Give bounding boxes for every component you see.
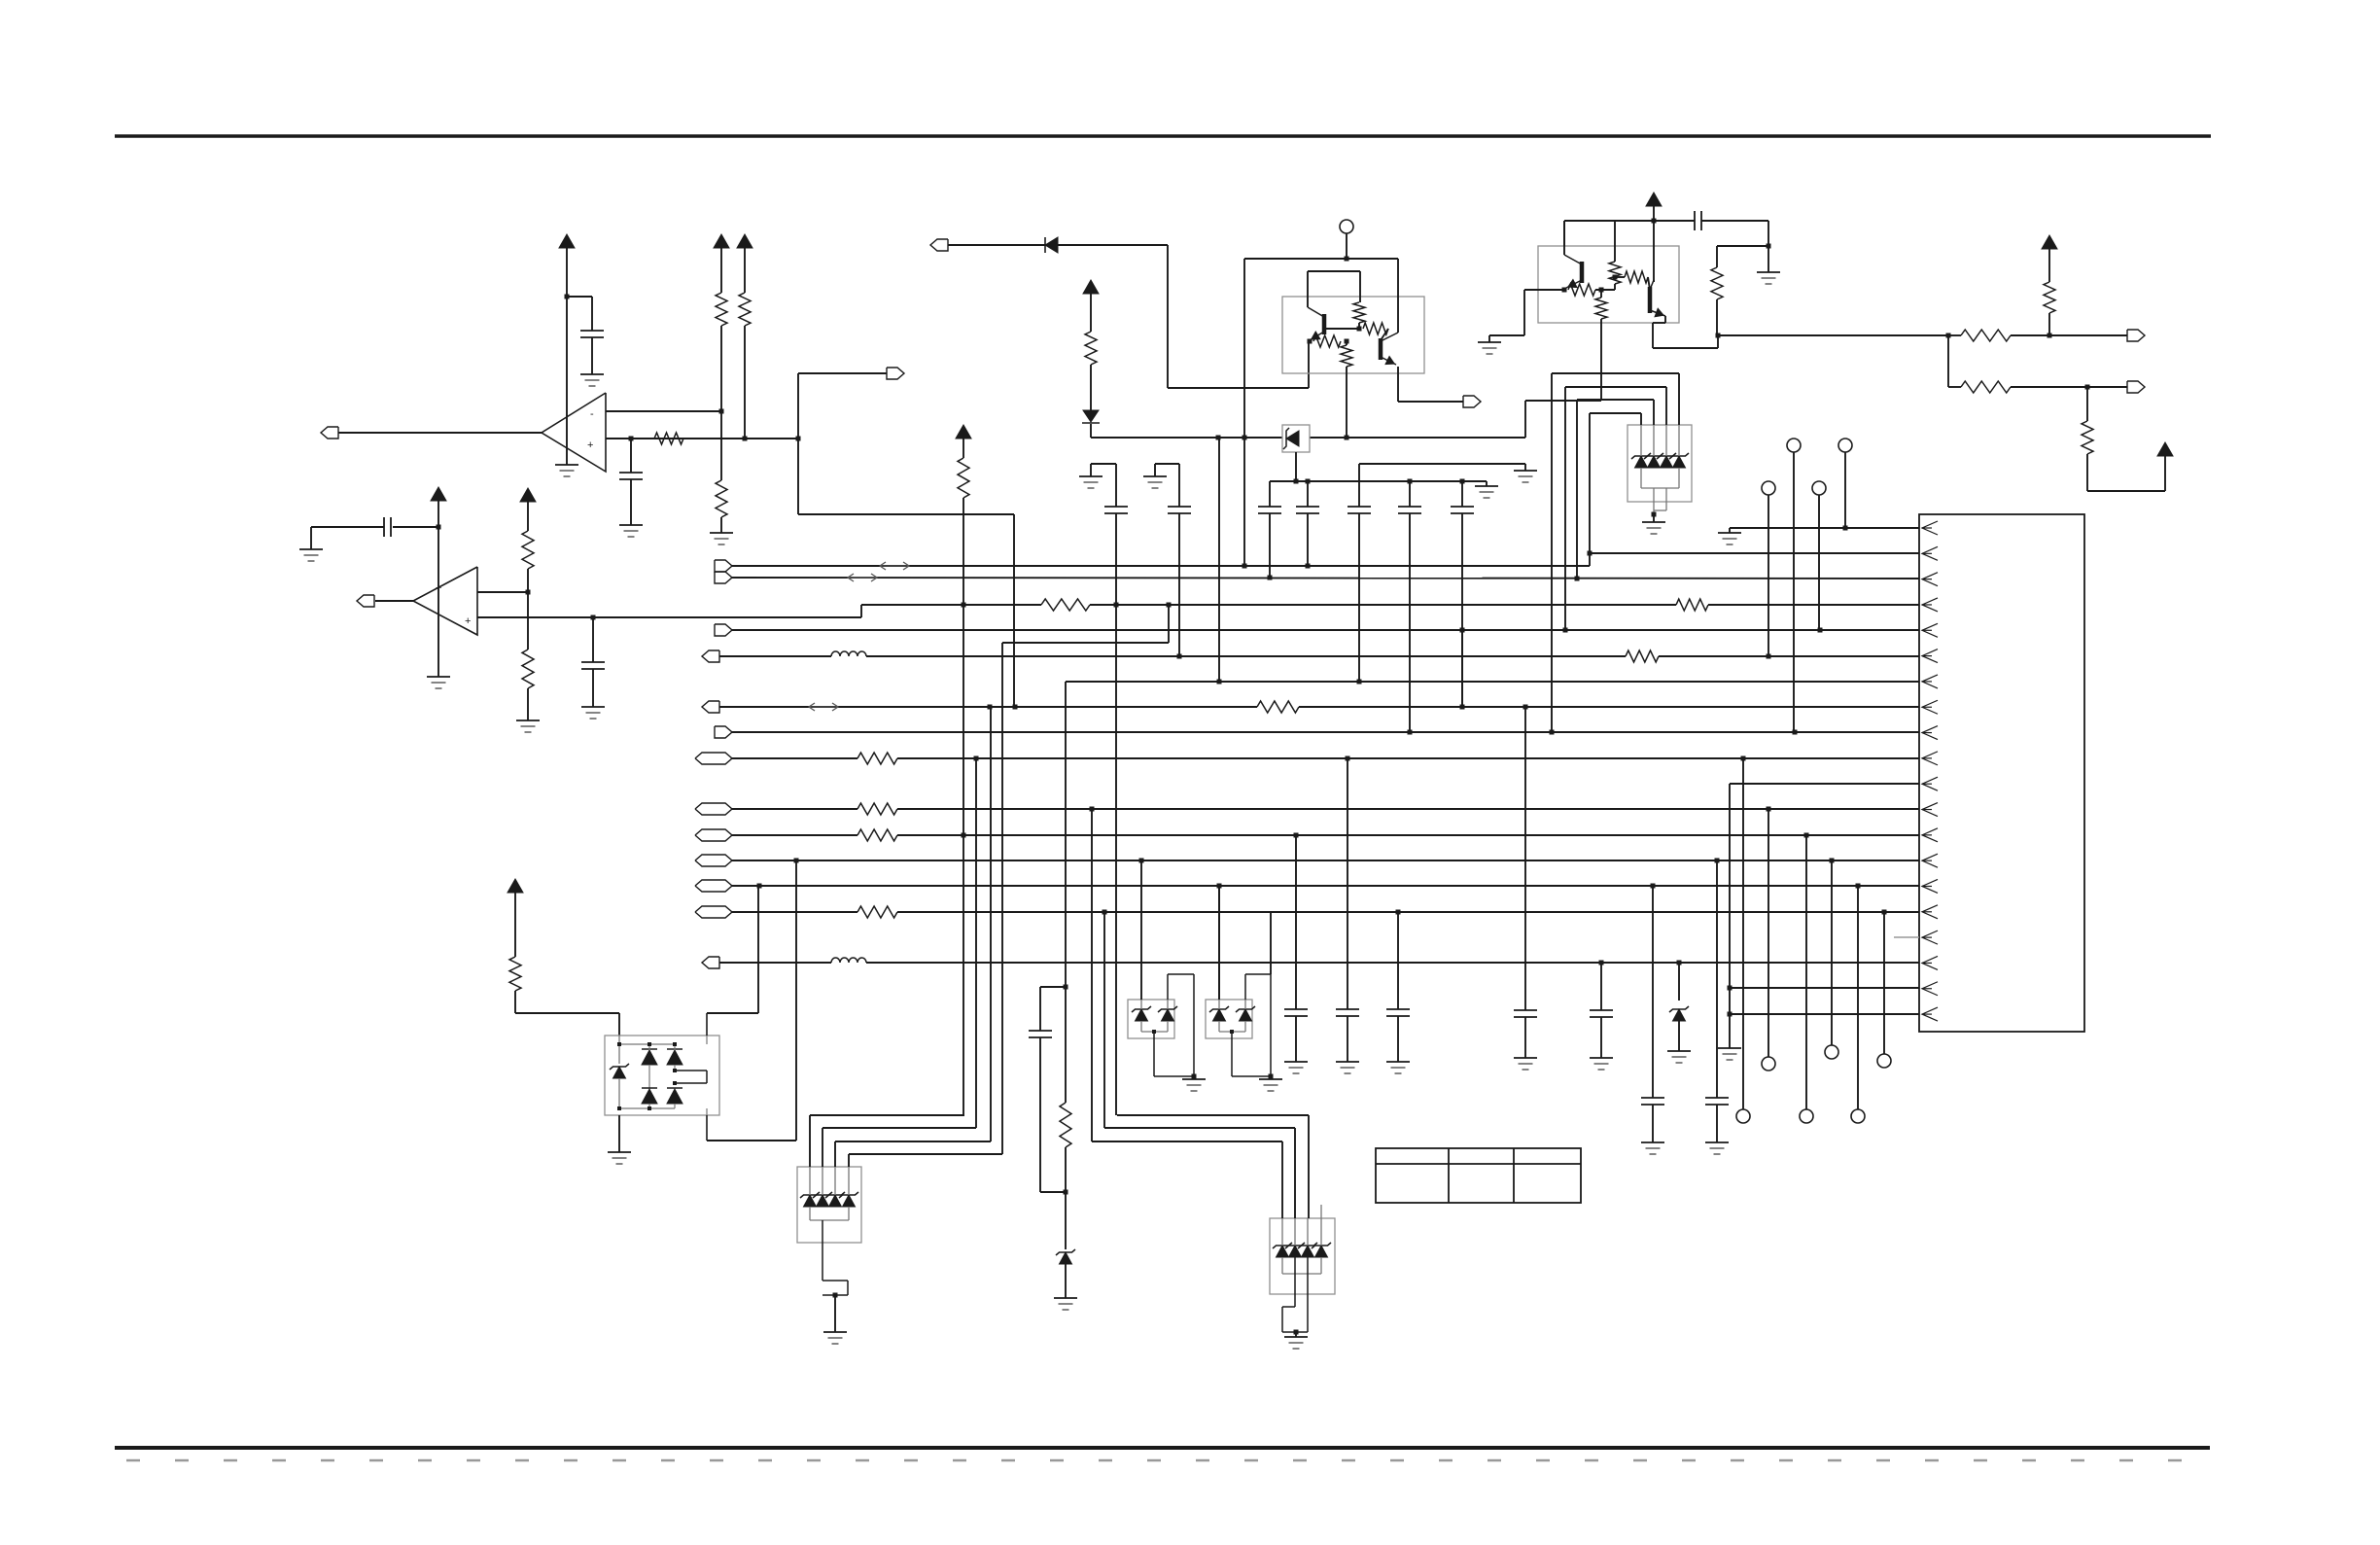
coupling capacitor C3 — [393, 526, 438, 528]
junction at output divider — [1946, 334, 1951, 338]
resistor R14 down from base node — [1600, 290, 1602, 298]
IC U1 pin 8 arrowhead — [1922, 700, 1938, 714]
op-amp U2B body — [413, 567, 477, 635]
BR1 right pin down — [706, 1115, 708, 1141]
zener 1 in U7 — [1277, 1246, 1289, 1257]
column x1386 cap to ground from row10 — [1347, 758, 1348, 1009]
svg-text:-: - — [590, 408, 594, 420]
V+ power arrow for U2A — [559, 234, 575, 248]
zener D4 — [1673, 1009, 1686, 1021]
BR1 bottom-left pin to ground — [618, 1115, 620, 1152]
resistor R7 vertical — [1353, 302, 1365, 323]
tee to resistor R11 — [1717, 245, 1768, 247]
junction R16-R17 — [2047, 334, 2052, 338]
wire from junction to Q4 emitter — [1717, 335, 1719, 348]
column x1858 to terminal — [1805, 835, 1807, 1109]
ground below C4 — [581, 706, 605, 708]
row to pin7 — [1066, 681, 1919, 683]
output flag of U2B — [357, 595, 374, 607]
ground bracket cap CA — [1091, 463, 1116, 465]
wire from D1 to corner — [1058, 244, 1168, 246]
zener 1 in U6 — [804, 1195, 817, 1207]
ground below R6 — [516, 720, 540, 721]
column x1438 cap to ground from row16 — [1397, 912, 1399, 1009]
column x1647 cap to ground — [1600, 963, 1602, 1010]
junction on U2B supply — [437, 525, 441, 530]
ground below x1569 column — [1514, 1057, 1537, 1059]
zener 3 in U5 — [1661, 456, 1673, 468]
transistor Q1 — [1322, 314, 1327, 334]
transistor Q4 — [1648, 287, 1653, 313]
diode array U6 outline — [797, 1167, 861, 1243]
ground below U7 — [1295, 1332, 1297, 1337]
IC U1 pin 18 arrowhead — [1922, 956, 1938, 969]
transistor Q3 — [1580, 262, 1585, 283]
column x1333 cap to ground from row13 — [1295, 835, 1297, 1009]
column x1793 to terminal — [1742, 758, 1744, 1109]
wire at y399 — [1168, 387, 1309, 389]
Q3 emitter node — [1562, 288, 1567, 293]
svg-text:+: + — [587, 439, 593, 451]
output flag row398 — [2127, 381, 2145, 393]
column x1004 — [975, 758, 977, 1128]
pullup resistor column R2 with power arrow — [714, 234, 729, 248]
lead down to RV3 — [1614, 221, 1616, 262]
junction minus input — [719, 409, 724, 414]
IC U1 pin 6 arrowhead — [1922, 650, 1938, 663]
zener 2 in U7 — [1289, 1246, 1302, 1257]
U2B non-inverting wire — [477, 616, 861, 618]
diode 4 BR1 — [667, 1089, 682, 1104]
IC U1 pin 19 arrowhead — [1922, 982, 1938, 996]
column x1819 to terminal — [1767, 809, 1769, 1057]
resistor R3 to ground from minus node — [720, 411, 722, 480]
ground below U4 — [1478, 341, 1501, 343]
ground below x1647 — [1590, 1057, 1613, 1059]
junction at plus node — [591, 615, 596, 620]
wire down to second divider — [1947, 335, 1949, 387]
IC U1 pin 13 arrowhead — [1922, 828, 1938, 842]
right lead down to Q2 collector — [1397, 259, 1399, 333]
column x1766 cap to ground — [1716, 860, 1718, 1098]
bottom rule dashes — [126, 1459, 2207, 1462]
resistor R20 vertical — [1085, 332, 1097, 365]
resistor R8 to Q2 base — [1363, 323, 1388, 334]
column x1884 to terminal — [1831, 860, 1833, 1045]
row to pin1 with ground — [1730, 527, 1919, 529]
lead from pack B to row15 — [1218, 886, 1220, 1000]
compensation capacitor C5 — [1654, 220, 1695, 222]
row to pin6 — [702, 650, 719, 662]
wire corner to column x1043 — [798, 513, 1014, 515]
Q2 emitter lead to output flag — [1397, 367, 1399, 402]
ground path from Q3 emitter — [1524, 289, 1564, 291]
wire to power arrow — [2087, 490, 2165, 492]
BR1 bottom bar — [619, 1107, 675, 1109]
U2B output wire — [375, 600, 413, 602]
ground below x1700 — [1641, 1141, 1664, 1143]
resistor R19 down — [2086, 387, 2088, 421]
block U4 top bracket — [1563, 221, 1565, 246]
ground below pack — [1193, 1076, 1195, 1079]
BR1 top bar — [619, 1043, 675, 1045]
V+ power arrow for U4 — [1646, 193, 1662, 206]
IC U1 pin 5 arrowhead — [1922, 623, 1938, 637]
bottom border rule — [115, 1446, 2210, 1450]
row to pin2 — [715, 560, 732, 572]
power arrow mid — [1083, 280, 1099, 294]
zener 4 in U5 — [1673, 456, 1686, 468]
diode D2 down — [1083, 410, 1099, 422]
zener diode box D3 — [1282, 425, 1310, 452]
lead to Q1 collector — [1307, 271, 1309, 307]
pack common lead — [1152, 1030, 1156, 1034]
top border rule — [115, 134, 2211, 138]
column x1136 from row16 — [1103, 912, 1105, 1128]
row to pin16 — [695, 906, 732, 918]
vertical wire down x1201 — [1167, 245, 1169, 388]
emitter node junction — [1308, 339, 1312, 344]
diode 1 BR1 — [642, 1050, 657, 1065]
cap branch — [1040, 986, 1066, 988]
lead from pack A to row14 — [1140, 860, 1142, 1000]
transistor pair block U3 outline — [1282, 297, 1424, 373]
row to pin4 — [861, 604, 1041, 606]
terminal circle above row9 — [1787, 439, 1801, 452]
ground below U2A — [555, 464, 578, 466]
junction at arrow stem — [1652, 219, 1657, 224]
ground below D5 — [1054, 1297, 1077, 1299]
column x1504 cap tap — [1461, 630, 1463, 707]
stub for pin17 — [1894, 936, 1919, 938]
resistor R6 to ground — [527, 592, 529, 650]
power arrow right — [2157, 442, 2173, 456]
IC U1 pin 14 arrowhead — [1922, 854, 1938, 867]
U6 internal bar — [809, 1207, 811, 1220]
op-amp U2A body — [542, 393, 606, 472]
transistor pair block U4 outline — [1538, 246, 1679, 323]
IC U1 pin 2 arrowhead — [1922, 546, 1938, 560]
U7 stub lead — [1320, 1205, 1322, 1218]
pullup resistor column R4 with power arrow — [737, 234, 752, 248]
L-wire from row4 to bottom diode array — [1168, 605, 1170, 643]
capacitor C2 below plus input — [630, 439, 632, 473]
wire from flag to diode D1 — [948, 244, 1045, 246]
ground at base of pin11 column — [1718, 1047, 1741, 1049]
ground below x1766 — [1705, 1141, 1729, 1143]
ground below D4 — [1667, 1050, 1691, 1052]
row to pin12 — [695, 803, 732, 815]
column x1307 from row16 to diode pack ground — [1270, 912, 1272, 974]
row to pin13 — [695, 829, 732, 841]
junction at x821 — [796, 437, 801, 441]
jog up to row4 — [860, 605, 862, 617]
bridge rectifier BR1 outline — [605, 1036, 719, 1115]
junction on U3 top wire — [1345, 257, 1349, 262]
wire from R14 to zener row — [1525, 400, 1601, 402]
ground left of C3 — [299, 548, 323, 550]
diode 3 BR1 — [642, 1089, 657, 1104]
column x1569 cap to ground — [1524, 707, 1526, 1010]
column x1254 lower to diode pack — [1218, 886, 1220, 1000]
capacitor C7 — [1307, 481, 1309, 507]
diode 2 BR1 — [667, 1050, 682, 1065]
output flag top middle — [930, 239, 948, 251]
IC U1 pin 9 arrowhead — [1922, 726, 1938, 740]
column x1254 upper — [1218, 438, 1220, 682]
pack second lead bracket — [1167, 974, 1169, 1000]
BR1 right pin up — [706, 1013, 708, 1036]
ground below U2B — [427, 676, 450, 678]
IC U1 pin 3 arrowhead — [1922, 573, 1938, 586]
lead to resistor R7 top — [1359, 271, 1361, 302]
svg-text:+: + — [465, 615, 471, 627]
stub down from row7 — [1065, 682, 1067, 987]
diode array U5 outline — [1627, 425, 1692, 502]
capacitor C4 below plus node — [592, 617, 594, 662]
row to pin9 — [715, 726, 732, 738]
capacitor C9 — [1409, 481, 1411, 507]
zener D5 — [1065, 1192, 1067, 1249]
zener B in pack — [1162, 1009, 1174, 1021]
ground below C5 wire — [1757, 271, 1780, 273]
row to pin10 — [695, 753, 732, 764]
column x1938 to terminal — [1883, 912, 1885, 1054]
U2B inverting input wire — [477, 591, 528, 593]
transistor Q2 — [1379, 338, 1383, 360]
zener 3 in U6 — [829, 1195, 842, 1207]
junction at plus input — [629, 437, 634, 441]
resistor R16 — [1948, 334, 1961, 336]
zener 4 in U6 — [843, 1195, 856, 1207]
Q4 emitter exit — [1664, 316, 1666, 323]
IC U1 pin 12 arrowhead — [1922, 803, 1938, 817]
zener B in pack — [1240, 1009, 1252, 1021]
IC U1 pin 10 arrowhead — [1922, 752, 1938, 765]
junction below R11 — [1716, 334, 1721, 338]
U6 common lead — [822, 1220, 823, 1281]
op-amp U2A output wire — [338, 432, 542, 434]
ground bracket cap CB — [1155, 463, 1179, 465]
IC U1 pin 20 arrowhead — [1922, 1007, 1938, 1021]
zener A in pack — [1136, 1009, 1148, 1021]
base tie wire Q1-Q2 — [1325, 328, 1359, 330]
lead below D3 — [1295, 452, 1297, 481]
revision table — [1376, 1148, 1581, 1203]
resistor R12 vertical in U4 — [1609, 262, 1621, 284]
power arrow left bottom — [507, 879, 523, 893]
feedback resistor R1 — [654, 433, 683, 444]
zener A in pack — [1213, 1009, 1226, 1021]
ground below pack — [1270, 1076, 1272, 1079]
IC U1 pin 15 arrowhead — [1922, 879, 1938, 893]
ground below U6 — [834, 1295, 836, 1332]
junction at R9 right — [1345, 339, 1349, 344]
flag on U2A node — [887, 368, 904, 379]
resistor R10 down to row450 — [1346, 341, 1347, 345]
terminal circle above row6 — [1762, 481, 1775, 495]
resistor R15 to Q4 base — [1625, 271, 1648, 283]
junction R1 right — [743, 437, 748, 441]
pack common lead — [1230, 1030, 1234, 1034]
diode D1 — [1045, 237, 1058, 253]
row to pin8 — [702, 701, 719, 713]
bypass capacitor C1 — [580, 330, 604, 332]
pack second lead bracket — [1244, 974, 1246, 1000]
zener 2 in U6 — [817, 1195, 829, 1207]
bracket left legs — [1551, 373, 1553, 732]
column x1911 to terminal — [1857, 886, 1859, 1109]
IC U1 pin 4 arrowhead — [1922, 598, 1938, 612]
ground right of y477 wire — [1514, 470, 1537, 472]
bracket wires into U5 — [1552, 372, 1679, 374]
ground right of y495 wire — [1475, 485, 1498, 487]
row to pin20 — [1730, 1013, 1919, 1015]
junction at R18 right — [2085, 385, 2090, 390]
terminal circle above U3 — [1340, 220, 1353, 233]
U5 internal common bar — [1640, 468, 1642, 488]
row to pin14 — [695, 855, 732, 866]
wire to bridge — [515, 1012, 619, 1014]
column x1123 from row12 — [1091, 809, 1093, 1141]
zener in BR1 — [618, 1036, 620, 1064]
wire from R11 junction to output resistors — [1718, 334, 1948, 336]
IC U1 pin 7 arrowhead — [1922, 675, 1938, 688]
row to pin5 — [715, 624, 732, 636]
L-wire from plus node up to flag — [797, 373, 799, 514]
ground below C1 — [580, 373, 604, 375]
U7 internal bar — [1281, 1257, 1283, 1274]
U7 common leads — [1294, 1257, 1296, 1307]
column x1727 zener to ground — [1678, 963, 1680, 1001]
dual zener pack outline — [1206, 1000, 1252, 1038]
resistor R21 — [1065, 987, 1067, 1103]
row to pin19 — [1730, 987, 1919, 989]
block U3 top wire — [1244, 258, 1398, 260]
resistor R18 — [1948, 386, 1961, 388]
row to pin15 — [695, 880, 732, 892]
output flag of block U3 — [1463, 396, 1481, 407]
IC U1 pin 1 arrowhead — [1922, 521, 1938, 535]
terminal circle and lead above pin1 row — [1838, 439, 1852, 452]
resistor R11 vertical — [1716, 246, 1718, 267]
output flag row345 — [2127, 330, 2145, 341]
resistor R13 horizontal — [1568, 284, 1595, 296]
diode array U7 outline — [1270, 1218, 1335, 1294]
ground below R3 — [710, 532, 733, 534]
junction at minus node — [526, 590, 531, 595]
zener 4 in U7 — [1315, 1246, 1328, 1257]
ground below U5 — [1642, 521, 1665, 523]
pullup resistor R17 with power arrow — [2042, 235, 2057, 249]
U2A non-inverting input wire — [606, 438, 798, 439]
column x991 power arrow and resistor — [956, 425, 971, 439]
pack internal bar — [1218, 1021, 1220, 1032]
V+ arrow through U2B — [431, 487, 446, 501]
resistor R22 — [509, 957, 521, 991]
row to pin18 — [702, 957, 719, 968]
inner collector tie wire — [1308, 270, 1360, 272]
capacitor C6 — [1269, 481, 1271, 507]
IC U1 pin 16 arrowhead — [1922, 905, 1938, 919]
zener 2 in U5 — [1648, 456, 1661, 468]
cap bank top wire y477 — [1359, 463, 1525, 465]
capacitor C8 — [1347, 506, 1371, 508]
pack internal bar — [1140, 1021, 1142, 1032]
junction on U2A supply — [565, 295, 570, 299]
terminal circle above row5 — [1812, 481, 1826, 495]
cap bank wire y495 — [1270, 480, 1487, 482]
IC U1 body — [1919, 514, 2084, 1032]
bracket wires into U6 — [810, 1114, 964, 1116]
bracket wires into U7 — [1117, 1114, 1309, 1116]
resistor column R5 with power arrow — [520, 488, 536, 502]
U5 common junction — [1652, 512, 1657, 517]
output flag of U2A — [321, 427, 338, 439]
dual zener pack outline — [1128, 1000, 1174, 1038]
column x1700 cap to ground — [1652, 886, 1654, 1098]
IC U1 pin 11 arrowhead — [1922, 777, 1938, 790]
ground below C2 — [619, 524, 643, 526]
row to pin11 from ground column — [1730, 783, 1919, 785]
left lead down through row 450 to row 2 — [1243, 259, 1245, 566]
zener net row y450 — [1091, 437, 1282, 439]
junction below R21 — [1064, 1190, 1068, 1195]
U2A inverting input wire — [606, 410, 721, 412]
capacitor C10 — [1461, 481, 1463, 507]
wire down to ground from C5 — [1767, 221, 1769, 272]
zener 3 in U7 — [1302, 1246, 1314, 1257]
snubber column top — [1064, 985, 1068, 990]
IC U1 pin 17 arrowhead — [1922, 931, 1938, 944]
BR1 mid taps — [675, 1070, 707, 1071]
resistor R9 horizontal — [1313, 335, 1341, 347]
wire up into block Q1 node — [1308, 342, 1310, 388]
row to pin3 — [715, 572, 732, 583]
zener 1 in U5 — [1635, 456, 1648, 468]
column x1019 — [990, 707, 992, 1141]
wire to bypass cap C1 — [567, 296, 592, 298]
